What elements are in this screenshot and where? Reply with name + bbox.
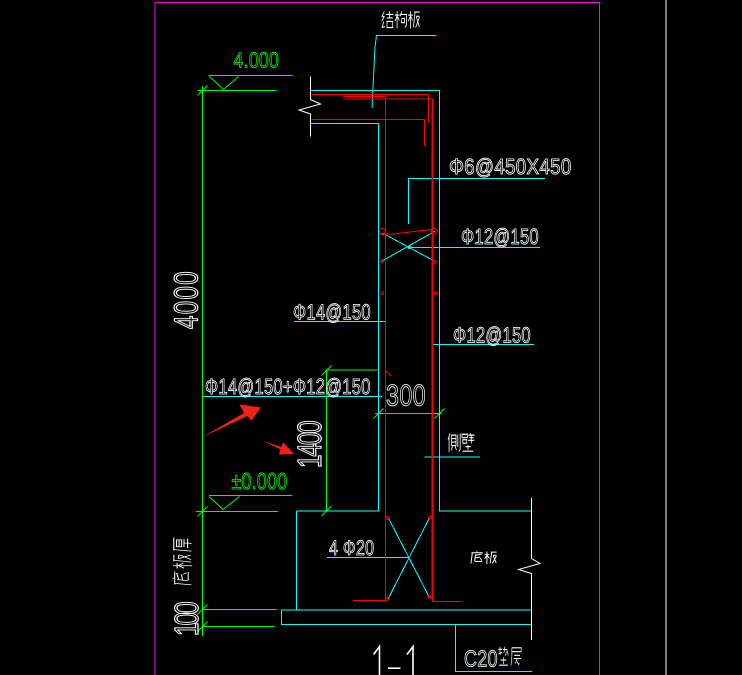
level underline 0.000 bbox=[209, 495, 292, 497]
main vertical dimension line 4000 bbox=[202, 86, 204, 636]
tick cushion bottom bbox=[198, 622, 208, 632]
footing break edge bbox=[519, 498, 541, 640]
viewport frame magenta top bbox=[155, 2, 601, 4]
wall inner rebar top hook bbox=[343, 96, 385, 98]
svg-text:4 Φ20: 4 Φ20 bbox=[329, 537, 374, 560]
wall inner rebar vertical bbox=[385, 97, 387, 601]
mesh curl right bbox=[431, 228, 437, 234]
svg-text:Φ14@150+Φ12@150: Φ14@150+Φ12@150 bbox=[205, 374, 371, 399]
svg-text:±0.000: ±0.000 bbox=[232, 468, 288, 494]
svg-text:C20: C20 bbox=[464, 646, 498, 672]
footing brace diagonal 2 bbox=[388, 518, 429, 599]
extension line cushion bottom bbox=[203, 626, 275, 628]
slab top bar with hook bbox=[312, 95, 429, 124]
wall tie diagonal 1 bbox=[382, 231, 435, 261]
wall outer rebar top hook bbox=[343, 98, 433, 100]
bar dot bbox=[433, 261, 436, 264]
annotation arrow small bbox=[263, 441, 295, 455]
leader 4Φ20 bbox=[327, 557, 409, 559]
svg-text:100: 100 bbox=[169, 601, 207, 636]
slab bottom bar with hook bbox=[312, 120, 425, 147]
level line 4.000 bbox=[209, 75, 293, 77]
label 底板 bbox=[471, 551, 497, 564]
bar dot bbox=[387, 597, 390, 600]
dim baseline at 0.000 bbox=[196, 511, 278, 513]
extension line 1400 top bbox=[326, 369, 378, 371]
viewport frame magenta left bbox=[154, 3, 156, 675]
splice tick on inner rebar bbox=[386, 371, 392, 377]
label 底板厚 rotated bbox=[172, 537, 192, 584]
svg-text:Φ12@150: Φ12@150 bbox=[461, 224, 539, 249]
footing left edge bbox=[296, 511, 298, 610]
svg-text:4.000: 4.000 bbox=[234, 48, 280, 73]
label 结构板 bbox=[382, 11, 420, 28]
leader Φ6@450X450 bbox=[409, 179, 546, 225]
mesh bar sloped bbox=[379, 230, 432, 235]
cushion top bbox=[281, 609, 532, 611]
svg-text:Φ6@450X450: Φ6@450X450 bbox=[449, 154, 572, 179]
outer rebar bottom hook bbox=[433, 601, 462, 603]
extension line footing top bbox=[323, 510, 373, 512]
footing top left bbox=[297, 510, 379, 512]
bar dot bbox=[386, 516, 389, 519]
wall outer rebar vertical bbox=[432, 99, 434, 602]
inner rebar bottom hook bbox=[353, 600, 388, 602]
dimension 1400 vertical line bbox=[326, 370, 328, 511]
wall tie diagonal 2 bbox=[382, 233, 434, 261]
viewport frame magenta right bbox=[599, 3, 601, 675]
svg-text:Φ14@150: Φ14@150 bbox=[293, 300, 371, 325]
leader C20垫层 bbox=[456, 625, 533, 672]
slab bottom surface bbox=[311, 123, 380, 125]
white divider line bbox=[665, 0, 667, 675]
cushion bottom bbox=[281, 624, 532, 626]
leader 侧壁 bbox=[425, 456, 481, 458]
tick 1400 top bbox=[322, 366, 332, 376]
dimension 300 line bbox=[375, 413, 442, 415]
tick 300 left bbox=[374, 409, 384, 419]
leader Φ14@150 bbox=[294, 321, 385, 323]
tick at elevation 4.000 bbox=[198, 86, 208, 96]
tick slab bottom bbox=[198, 605, 208, 615]
section title 1-1 bbox=[374, 647, 414, 675]
wall inner face bbox=[378, 124, 380, 512]
bar dot bbox=[434, 292, 437, 295]
bar dot bbox=[381, 292, 384, 295]
tick 300 right bbox=[435, 409, 445, 419]
level triangle 4.000 bbox=[210, 77, 239, 90]
extension line slab bottom level bbox=[203, 609, 278, 611]
label 侧壁 bbox=[448, 433, 474, 452]
cushion left edge bbox=[281, 610, 283, 625]
wall outer face bbox=[439, 91, 441, 512]
bar dot bbox=[381, 260, 384, 263]
bar dot bbox=[428, 516, 431, 519]
level triangle 0.000 bbox=[209, 497, 240, 510]
footing brace diagonal 1 bbox=[388, 518, 429, 597]
svg-text:4000: 4000 bbox=[168, 271, 206, 329]
leader Φ12@150 upper bbox=[409, 247, 540, 249]
leader Φ14@150+Φ12@150 bbox=[203, 396, 383, 398]
annotation arrow large bbox=[202, 405, 262, 438]
svg-text:Φ12@150: Φ12@150 bbox=[453, 323, 531, 348]
svg-text:1400: 1400 bbox=[292, 420, 330, 468]
leader Φ12@150 lower bbox=[433, 344, 535, 346]
leader 结构板 bbox=[372, 36, 436, 109]
slab break edge bbox=[299, 77, 321, 137]
mesh curl left bbox=[379, 228, 385, 234]
dim baseline at 4.000 bbox=[198, 90, 277, 92]
svg-text:300: 300 bbox=[386, 380, 426, 413]
slab top surface bbox=[311, 90, 441, 92]
footing top right bbox=[440, 510, 532, 512]
bar dot bbox=[428, 596, 431, 599]
tick footing top bbox=[322, 506, 332, 516]
tick at elevation 0.000 bbox=[198, 507, 208, 517]
